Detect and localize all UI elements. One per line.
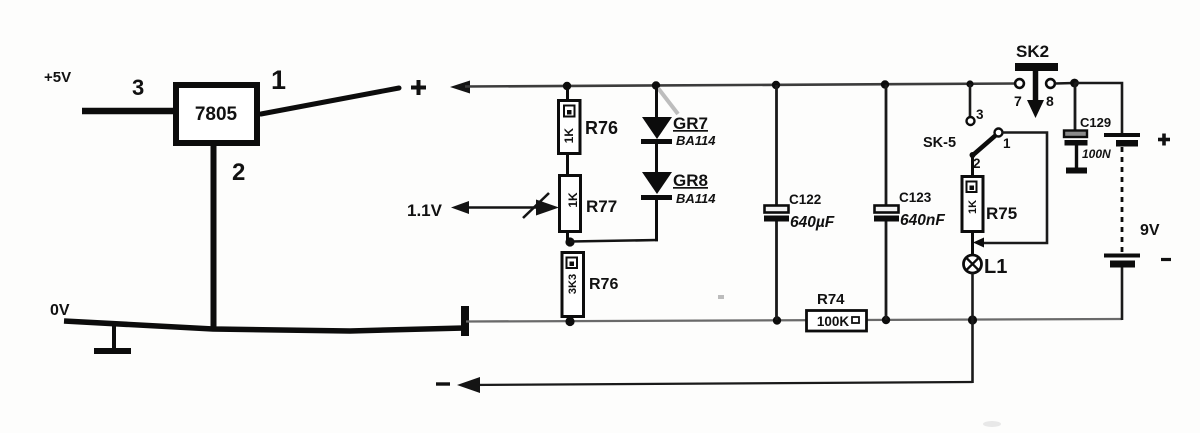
svg-text:2: 2 [232, 159, 245, 186]
svg-text:1K: 1K [566, 192, 580, 208]
node top GR7 [652, 81, 660, 89]
capacitor C122 [764, 85, 835, 320]
svg-text:SK-5: SK-5 [923, 135, 956, 151]
svg-text:1K: 1K [562, 128, 576, 144]
switch SK-5 [923, 84, 1011, 171]
node bus end tick [461, 306, 469, 336]
node bottom L1 [968, 315, 977, 324]
svg-text:0V: 0V [50, 302, 70, 319]
svg-text:1K: 1K [967, 200, 979, 214]
wire node to battery [1075, 83, 1123, 133]
wire R78 bottom [569, 316, 572, 322]
wire bus to R76 [566, 86, 569, 101]
wire top bus arrow [450, 81, 470, 94]
node top C122 [772, 81, 780, 89]
svg-text:100N: 100N [1082, 147, 1111, 161]
node R77 R78 [565, 237, 574, 246]
wire return arrow [457, 377, 480, 393]
wire SK5 pole to R75 [971, 156, 974, 177]
wire GR8 down [655, 199, 658, 241]
wire bus to GR7 [655, 86, 658, 119]
svg-text:GR8: GR8 [673, 171, 708, 190]
node bottom C123 [882, 316, 890, 324]
diode GR8 [641, 171, 716, 206]
resistor R74 [807, 291, 867, 331]
wire +5V input [82, 108, 176, 115]
svg-text:C129: C129 [1080, 115, 1111, 130]
wire pin2 vertical [211, 145, 217, 330]
potentiometer R77 [560, 176, 618, 232]
wire 0V bus thick [64, 321, 464, 331]
ground [94, 323, 131, 351]
label + top [411, 80, 426, 95]
svg-text:C123: C123 [899, 190, 932, 205]
resistor R78 [562, 253, 618, 317]
wire battery to bus [1121, 268, 1124, 321]
svg-text:+5V: +5V [44, 69, 71, 86]
svg-text:L1: L1 [984, 256, 1007, 278]
artifact smudge [658, 88, 678, 114]
wire loop arrowhead [973, 238, 984, 248]
wire SK2 to battery node [1055, 82, 1074, 85]
svg-text:640µF: 640µF [790, 214, 835, 231]
wire R76 to R77 [566, 153, 569, 176]
resistor R75 [962, 177, 1017, 232]
artifact speck [983, 421, 1001, 427]
wire R75 to L1 [971, 231, 974, 255]
node bottom R78 [565, 317, 574, 326]
svg-text:C122: C122 [789, 192, 821, 207]
wire thin bottom bus [466, 319, 1122, 322]
node top R76 [563, 82, 571, 90]
label minus bottom [436, 382, 450, 385]
svg-text:1.1V: 1.1V [407, 201, 443, 220]
svg-text:100K: 100K [817, 314, 850, 329]
wire GR7 to GR8 [655, 143, 658, 174]
lamp L1 [964, 255, 1008, 278]
node C129 [1070, 79, 1079, 88]
node bottom C122 [773, 316, 781, 324]
svg-text:1: 1 [1003, 136, 1011, 151]
wire top bus [465, 84, 1019, 87]
wire pin1 diagonal [261, 88, 399, 114]
svg-text:9V: 9V [1140, 222, 1160, 239]
svg-text:R76: R76 [585, 118, 618, 138]
svg-text:8: 8 [1046, 93, 1054, 109]
svg-text:R74: R74 [817, 291, 845, 308]
wire node to GR8 [570, 240, 658, 242]
svg-text:7: 7 [1014, 93, 1022, 109]
wire L1 down [971, 273, 974, 383]
svg-text:2: 2 [973, 156, 981, 171]
capacitor C123 [874, 85, 945, 321]
svg-text:R76: R76 [589, 276, 618, 293]
diode GR7 [641, 114, 716, 148]
svg-text:3K3: 3K3 [567, 274, 579, 294]
svg-text:3: 3 [132, 75, 144, 100]
wire R77 bottom [566, 231, 569, 242]
battery BT1 9V [1104, 133, 1171, 268]
svg-text:R75: R75 [986, 204, 1017, 223]
resistor R76 [559, 101, 619, 154]
wire return line [466, 382, 973, 385]
wire wiper 1.1V [451, 193, 559, 218]
svg-text:SK2: SK2 [1016, 42, 1049, 61]
regulator U1 7805 [176, 85, 257, 143]
node top C123 [881, 80, 889, 88]
artifact speck [718, 295, 724, 299]
svg-text:GR7: GR7 [673, 114, 708, 133]
svg-text:R77: R77 [586, 197, 617, 216]
svg-text:1: 1 [271, 65, 286, 95]
switch SK2 [1014, 42, 1058, 118]
svg-text:3: 3 [976, 107, 984, 122]
capacitor C129 [1064, 83, 1111, 174]
svg-text:BA114: BA114 [676, 191, 716, 206]
node top SK5 [966, 80, 973, 87]
wire SK5 contact1 loop [979, 133, 1047, 244]
svg-text:640nF: 640nF [900, 212, 945, 229]
svg-text:BA114: BA114 [676, 133, 716, 148]
svg-text:7805: 7805 [195, 104, 238, 125]
